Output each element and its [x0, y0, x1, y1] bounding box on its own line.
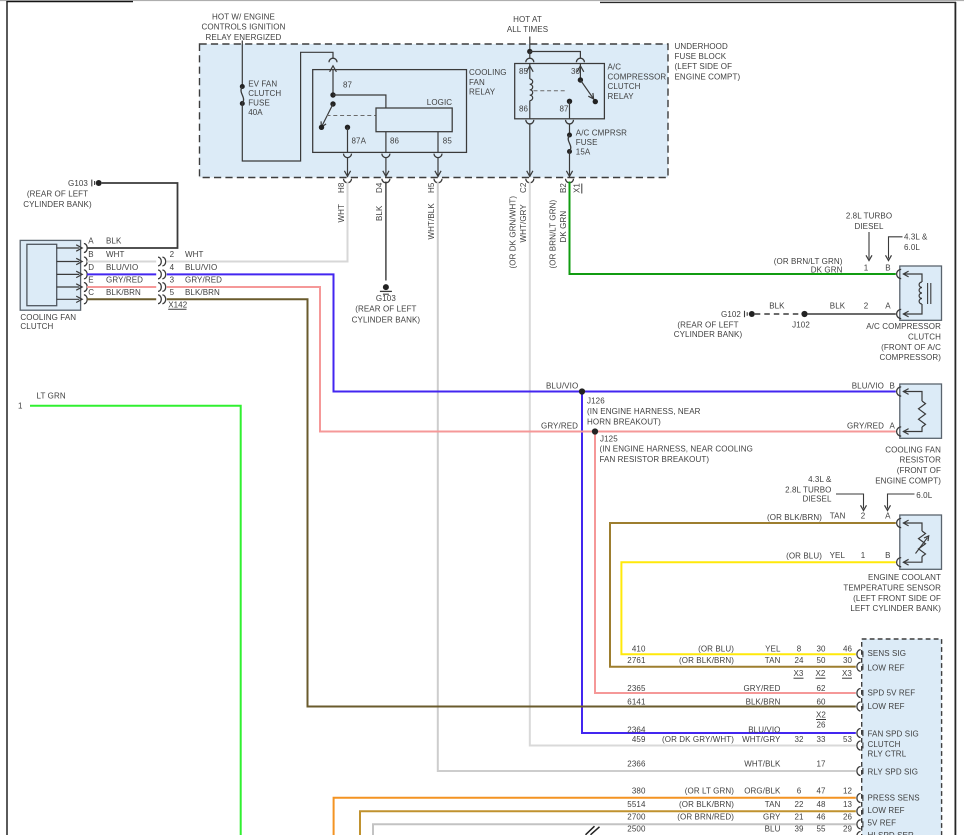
svg-text:A: A: [890, 421, 896, 430]
svg-text:B: B: [890, 381, 895, 390]
svg-text:CONTROLS IGNITION: CONTROLS IGNITION: [202, 23, 286, 32]
svg-text:CLUTCH: CLUTCH: [868, 740, 901, 749]
svg-text:(REAR OF LEFT: (REAR OF LEFT: [677, 321, 738, 330]
svg-text:A: A: [88, 237, 94, 246]
svg-text:DK GRN: DK GRN: [559, 211, 568, 243]
svg-text:2: 2: [170, 250, 175, 259]
svg-text:G102: G102: [721, 310, 741, 319]
row 459 WHT/GRY labels: [632, 735, 853, 744]
svg-text:D: D: [88, 263, 94, 272]
svg-text:(OR BLU): (OR BLU): [698, 645, 734, 654]
svg-text:WHT: WHT: [185, 250, 204, 259]
svg-text:A/C: A/C: [608, 63, 622, 72]
svg-text:410: 410: [632, 645, 646, 654]
svg-text:BLK: BLK: [106, 237, 122, 246]
svg-text:EV FAN: EV FAN: [248, 80, 277, 89]
row 2500 BLU labels: [627, 825, 852, 834]
svg-text:RESISTOR: RESISTOR: [899, 456, 941, 465]
svg-text:85: 85: [519, 67, 529, 76]
row 5514 TAN labels: [627, 800, 852, 809]
wire ORG/BLK circuit 380: [334, 798, 856, 835]
svg-text:BLU/VIO: BLU/VIO: [106, 263, 138, 272]
svg-text:GRY/RED: GRY/RED: [541, 421, 578, 430]
svg-text:26: 26: [843, 812, 853, 821]
svg-text:YEL: YEL: [830, 551, 846, 560]
ground G103 center: [352, 284, 421, 324]
svg-text:BLU/VIO: BLU/VIO: [852, 381, 884, 390]
svg-text:BLK: BLK: [375, 205, 384, 221]
svg-text:1: 1: [861, 551, 866, 560]
svg-text:X3: X3: [794, 669, 804, 678]
svg-text:(REAR OF LEFT: (REAR OF LEFT: [355, 305, 416, 314]
svg-text:GRY/RED: GRY/RED: [106, 276, 143, 285]
row 2365 GRY/RED labels: [627, 684, 826, 693]
svg-text:WHT/BLK: WHT/BLK: [744, 760, 781, 769]
ECM pin connectors: [857, 650, 863, 829]
svg-text:LT GRN: LT GRN: [37, 391, 66, 400]
wire feed from ignition relay: [241, 41, 243, 87]
row 2761 TAN labels: [627, 656, 852, 665]
a/c compressor clutch relay K2 box: [515, 64, 605, 119]
svg-text:(OR BLK/BRN): (OR BLK/BRN): [767, 513, 822, 522]
svg-text:BLK/BRN: BLK/BRN: [185, 288, 220, 297]
svg-text:(OR BRN/RED): (OR BRN/RED): [677, 812, 734, 821]
svg-text:(LEFT FRONT SIDE OF: (LEFT FRONT SIDE OF: [853, 594, 941, 603]
svg-text:3: 3: [170, 276, 175, 285]
labels 85 30 86 87: [519, 67, 581, 114]
svg-text:RLY CTRL: RLY CTRL: [868, 750, 907, 759]
svg-text:WHT: WHT: [337, 204, 346, 223]
svg-text:H5: H5: [427, 182, 436, 193]
svg-text:30: 30: [571, 67, 581, 76]
label A/C CMPRSR FUSE 15A: [576, 129, 627, 157]
junction J126: [579, 388, 701, 426]
row 2700 GRY labels: [627, 812, 852, 821]
svg-text:COOLING FAN: COOLING FAN: [885, 445, 941, 454]
wire BLK/BRN circuit (clutch C to ECM LOW REF): [87, 299, 856, 706]
svg-text:CLUTCH: CLUTCH: [908, 333, 941, 342]
svg-text:RELAY: RELAY: [469, 88, 496, 97]
a/c compressor clutch box with coil: [897, 266, 942, 320]
pin label C2 wire WHT/GRY: [509, 182, 529, 268]
svg-text:(REAR OF LEFT: (REAR OF LEFT: [27, 190, 88, 199]
svg-text:G103: G103: [376, 294, 396, 303]
svg-text:ENGINE COMPT): ENGINE COMPT): [675, 72, 741, 81]
svg-text:(IN ENGINE HARNESS, NEAR: (IN ENGINE HARNESS, NEAR: [587, 407, 701, 416]
svg-text:8: 8: [797, 645, 802, 654]
svg-text:C2: C2: [519, 182, 528, 193]
junction J125: [592, 428, 753, 463]
wire BLK clutch pin A to G103: [87, 183, 178, 248]
label A/C COMPRESSOR CLUTCH RELAY: [608, 63, 667, 101]
svg-text:30: 30: [843, 656, 853, 665]
svg-text:87: 87: [560, 104, 570, 113]
svg-text:COOLING: COOLING: [469, 68, 507, 77]
svg-text:C: C: [88, 288, 94, 297]
engine coolant temperature sensor box with thermistor: [897, 515, 942, 569]
svg-text:85: 85: [443, 137, 453, 146]
svg-text:4.3L &: 4.3L &: [904, 233, 928, 242]
wire 85 internal (logic out): [437, 132, 439, 153]
svg-text:COMPRESSOR): COMPRESSOR): [879, 353, 941, 362]
svg-text:BLK/BRN: BLK/BRN: [746, 698, 781, 707]
labels 2.8L TURBO DIESEL with arrow to pin 1: [846, 212, 892, 261]
ECM pin connector HI SPD SER row: [857, 832, 861, 835]
svg-text:(LEFT SIDE OF: (LEFT SIDE OF: [675, 62, 733, 71]
svg-text:2.8L TURBO: 2.8L TURBO: [846, 212, 892, 221]
svg-text:X2: X2: [816, 711, 826, 720]
label COOLING FAN RELAY: [469, 68, 507, 97]
svg-text:DK GRN: DK GRN: [811, 265, 843, 274]
svg-text:(IN ENGINE HARNESS, NEAR COOLI: (IN ENGINE HARNESS, NEAR COOLING: [600, 445, 753, 454]
svg-text:33: 33: [816, 735, 826, 744]
svg-text:TAN: TAN: [765, 800, 781, 809]
svg-text:46: 46: [816, 812, 826, 821]
label HOT W/ ENGINE CONTROLS IGNITION RELAY ENERGIZED: [202, 13, 286, 42]
twisted pair mark at bottom edge: [586, 826, 600, 835]
svg-text:ENGINE COOLANT: ENGINE COOLANT: [868, 573, 941, 582]
svg-text:46: 46: [843, 645, 853, 654]
svg-text:GRY/RED: GRY/RED: [847, 421, 884, 430]
svg-text:RELAY ENERGIZED: RELAY ENERGIZED: [206, 33, 282, 42]
svg-text:FUSE: FUSE: [576, 138, 598, 147]
svg-text:B: B: [885, 264, 890, 273]
svg-text:6.0L: 6.0L: [916, 491, 932, 500]
wire LT GRN: [18, 391, 241, 835]
svg-text:GRY/RED: GRY/RED: [743, 684, 780, 693]
labels 87A 86 85: [352, 137, 453, 146]
svg-text:X1: X1: [573, 183, 582, 193]
svg-text:2365: 2365: [627, 684, 646, 693]
relay pin 85 connector and coil: [526, 58, 534, 79]
svg-text:B2: B2: [559, 183, 568, 193]
svg-text:RLY SPD SIG: RLY SPD SIG: [868, 767, 919, 776]
svg-text:48: 48: [816, 800, 826, 809]
svg-text:CLUTCH: CLUTCH: [608, 82, 641, 91]
svg-text:6141: 6141: [627, 698, 646, 707]
ground G103 top-left: [23, 179, 101, 209]
svg-text:FAN SPD SIG: FAN SPD SIG: [868, 730, 919, 739]
svg-text:60: 60: [816, 698, 826, 707]
svg-text:53: 53: [843, 735, 853, 744]
svg-text:LOW REF: LOW REF: [868, 702, 905, 711]
svg-text:TEMPERATURE SENSOR: TEMPERATURE SENSOR: [843, 584, 941, 593]
svg-text:(FRONT OF A/C: (FRONT OF A/C: [881, 343, 941, 352]
labels (OR BRN/LT GRN) DK GRN and pins 1 B: [774, 257, 891, 274]
svg-text:COMPRESSOR: COMPRESSOR: [608, 72, 667, 81]
svg-text:X3: X3: [842, 669, 852, 678]
svg-text:ALL TIMES: ALL TIMES: [507, 25, 548, 34]
svg-text:X142: X142: [168, 300, 188, 309]
svg-text:(FRONT OF: (FRONT OF: [897, 466, 941, 475]
svg-text:1: 1: [864, 264, 869, 273]
row 380 ORG/BLK labels: [632, 787, 853, 796]
svg-text:ORG/BLK: ORG/BLK: [744, 787, 781, 796]
svg-text:86: 86: [519, 104, 529, 113]
svg-text:6: 6: [797, 787, 802, 796]
svg-text:(OR BRN/LT GRN): (OR BRN/LT GRN): [549, 200, 558, 269]
svg-text:HOT W/ ENGINE: HOT W/ ENGINE: [212, 13, 275, 22]
label 87: [343, 81, 353, 90]
labels BLK BLK 2 A for G102 wire: [769, 302, 891, 311]
wire 87A internal: [345, 125, 350, 153]
svg-text:WHT/GRY: WHT/GRY: [519, 204, 528, 243]
pin label H5 wire WHT/BLK: [427, 182, 436, 239]
svg-text:GRY: GRY: [763, 812, 781, 821]
svg-text:2700: 2700: [627, 812, 646, 821]
svg-text:47: 47: [816, 787, 826, 796]
wire TAN circuit 5514: [360, 811, 856, 835]
svg-text:J125: J125: [600, 434, 618, 443]
wire WHT/GRY circuit (fuse block C2 to ECM CLUTCH RLY CTRL): [530, 182, 856, 746]
svg-text:22: 22: [794, 800, 804, 809]
svg-text:D4: D4: [375, 182, 384, 193]
wire DK GRN circuit (fuse block B2/X1 to A/C compressor clutch B): [570, 182, 896, 275]
wire TAN circuit (ECT sensor A to ECM LOW REF): [610, 523, 896, 667]
svg-text:(OR BLK/BRN): (OR BLK/BRN): [679, 656, 734, 665]
svg-text:(OR BLK/BRN): (OR BLK/BRN): [679, 800, 734, 809]
wire HOT AT ALL TIMES feed: [527, 37, 580, 59]
svg-text:459: 459: [632, 735, 646, 744]
wire WHT/BLK circuit (fuse block H5 to ECM RLY SPD SIG): [438, 182, 856, 772]
svg-text:5V REF: 5V REF: [868, 819, 897, 828]
svg-text:B: B: [88, 250, 93, 259]
svg-text:CLUTCH: CLUTCH: [20, 322, 53, 331]
labels BLU/VIO B at resistor: [541, 381, 896, 430]
row 410 YEL labels: [632, 645, 853, 654]
wire BLK circuit (fuse block D4 to ground G103): [385, 182, 387, 281]
relay switch blade (87 to 87A): [319, 101, 336, 130]
wire 86 internal (logic out): [385, 132, 387, 153]
wire WHT circuit (clutch B to fuse block H8): [87, 182, 348, 262]
label 6.0L with elbow arrow to pin A: [885, 491, 933, 511]
svg-text:30: 30: [816, 645, 826, 654]
label A/C COMPRESSOR CLUTCH (FRONT OF A/C COMPRESSOR): [866, 322, 941, 362]
svg-text:RELAY: RELAY: [608, 92, 635, 101]
svg-text:LOW REF: LOW REF: [868, 663, 905, 672]
svg-text:2: 2: [861, 512, 866, 521]
svg-text:COOLING FAN: COOLING FAN: [20, 313, 76, 322]
svg-text:26: 26: [816, 720, 826, 729]
svg-text:(OR LT GRN): (OR LT GRN): [685, 787, 734, 796]
relay actuation dashed line: [534, 90, 567, 92]
svg-text:WHT: WHT: [106, 250, 125, 259]
ground G102 with dashed BLK wire and junction J102: [674, 310, 896, 339]
cooling fan relay pin 87 connector: [329, 58, 337, 95]
svg-text:32: 32: [794, 735, 804, 744]
node: relay 87 feed to logic: [330, 92, 386, 108]
connector labels X3 X2 X3: [794, 669, 853, 678]
svg-text:GRY/RED: GRY/RED: [185, 276, 222, 285]
row 2364 BLU/VIO labels: [627, 726, 780, 735]
svg-text:39: 39: [794, 825, 804, 834]
svg-text:4: 4: [170, 263, 175, 272]
svg-text:BLK: BLK: [769, 302, 785, 311]
svg-text:B: B: [885, 551, 890, 560]
svg-text:A/C CMPRSR: A/C CMPRSR: [576, 129, 627, 138]
svg-text:6.0L: 6.0L: [904, 243, 920, 252]
label COOLING FAN CLUTCH: [20, 313, 76, 331]
wire BLU/VIO circuit (clutch D via J126 to fan resistor B and ECM FAN SPD SIG): [87, 274, 896, 733]
wire YEL circuit (ECT sensor B to ECM SENS SIG): [621, 562, 895, 654]
connector label X2 pin 26: [816, 711, 826, 730]
connector X142 right-side labels: [170, 250, 223, 297]
svg-text:50: 50: [816, 656, 826, 665]
svg-text:2: 2: [864, 302, 869, 311]
svg-text:(OR DK GRY/WHT): (OR DK GRY/WHT): [662, 735, 734, 744]
svg-text:YEL: YEL: [765, 645, 781, 654]
svg-text:2500: 2500: [627, 825, 646, 834]
relay pin 87 internal wire: [567, 99, 572, 119]
fuse EV FAN CLUTCH FUSE 40A: [240, 80, 282, 118]
svg-text:17: 17: [816, 760, 826, 769]
svg-text:CYLINDER BANK): CYLINDER BANK): [23, 200, 92, 209]
cooling fan clutch box: [20, 240, 80, 310]
wire color labels BLK WHT BLU/VIO GRY/RED BLK/BRN: [106, 237, 143, 297]
svg-text:87A: 87A: [352, 137, 367, 146]
svg-text:PRESS SENS: PRESS SENS: [868, 794, 920, 803]
label ENGINE COOLANT TEMPERATURE SENSOR (LEFT FRONT SIDE OF LEFT CYLINDER BANK): [843, 573, 941, 613]
svg-text:2364: 2364: [627, 726, 646, 735]
underhood fuse block (dashed box): [200, 44, 669, 178]
svg-text:13: 13: [843, 800, 853, 809]
svg-text:LOGIC: LOGIC: [427, 98, 453, 107]
svg-text:(OR BLU): (OR BLU): [786, 552, 822, 561]
svg-text:LEFT CYLINDER BANK): LEFT CYLINDER BANK): [850, 604, 941, 613]
svg-text:X2: X2: [816, 669, 826, 678]
cooling fan clutch internal pins: [57, 244, 88, 304]
svg-text:29: 29: [843, 825, 853, 834]
svg-text:FUSE BLOCK: FUSE BLOCK: [675, 52, 727, 61]
svg-text:FUSE: FUSE: [248, 99, 270, 108]
cooling fan resistor box: [897, 384, 942, 438]
wire fuse to cooling fan relay pin 87 feed: [242, 52, 333, 161]
svg-text:4.3L &: 4.3L &: [808, 475, 832, 484]
svg-text:BLU/VIO: BLU/VIO: [185, 263, 217, 272]
relay actuation dashed line: [327, 115, 376, 117]
svg-text:A/C COMPRESSOR: A/C COMPRESSOR: [866, 322, 941, 331]
svg-text:BLU/VIO: BLU/VIO: [546, 381, 578, 390]
svg-text:CYLINDER BANK): CYLINDER BANK): [352, 315, 421, 324]
svg-text:40A: 40A: [248, 108, 263, 117]
svg-text:CYLINDER BANK): CYLINDER BANK): [674, 330, 743, 339]
pin label D4 wire BLK: [375, 182, 384, 221]
cooling fan relay K1 box: [313, 70, 467, 153]
svg-text:J102: J102: [792, 321, 810, 330]
svg-text:1: 1: [18, 402, 23, 411]
labels 4.3L & 2.8L TURBO DIESEL with elbow arrow to pin 2: [785, 475, 866, 511]
svg-text:5: 5: [170, 288, 175, 297]
svg-text:12: 12: [843, 787, 853, 796]
ECM connector dashed box: [862, 639, 942, 835]
svg-text:BLU/VIO: BLU/VIO: [748, 726, 780, 735]
svg-text:LOW REF: LOW REF: [868, 806, 905, 815]
relay 87 output through A/C CMPRSR FUSE 15A to pin B2/X1: [566, 120, 574, 183]
svg-text:WHT/GRY: WHT/GRY: [742, 735, 781, 744]
labels (OR BLK/BRN) TAN 2 A: [767, 512, 891, 523]
svg-text:CLUTCH: CLUTCH: [248, 89, 281, 98]
row 2366 WHT/BLK labels: [627, 760, 826, 769]
labels 4.3L & 6.0L with elbow arrow to pin B: [886, 233, 928, 261]
svg-text:SENS SIG: SENS SIG: [868, 649, 907, 658]
svg-text:DIESEL: DIESEL: [854, 222, 884, 231]
svg-text:HORN BREAKOUT): HORN BREAKOUT): [587, 417, 661, 426]
svg-text:FAN: FAN: [469, 78, 485, 87]
ECM signal labels: [868, 649, 920, 835]
pin letter labels A B D E C: [88, 237, 94, 297]
svg-text:(OR DK GRN/WHT): (OR DK GRN/WHT): [509, 196, 518, 269]
wire GRY circuit 2700: [373, 824, 856, 835]
svg-text:62: 62: [816, 684, 826, 693]
svg-text:21: 21: [794, 812, 804, 821]
svg-text:HOT AT: HOT AT: [513, 15, 542, 24]
svg-text:380: 380: [632, 787, 646, 796]
svg-text:UNDERHOOD: UNDERHOOD: [675, 42, 728, 51]
wire GRY/RED circuit (clutch E via J125 to fan resistor A and ECM SPD 5V REF): [87, 287, 896, 693]
logic module box: [376, 98, 452, 132]
pin label B2 X1 wire DK GRN: [549, 183, 582, 269]
row 6141 BLK/BRN labels: [627, 698, 826, 707]
svg-text:BLK: BLK: [830, 302, 846, 311]
relay pin 30 connector and switch blade: [576, 58, 598, 104]
svg-text:2366: 2366: [627, 760, 646, 769]
svg-text:J126: J126: [587, 396, 605, 405]
svg-text:86: 86: [390, 137, 400, 146]
svg-text:BLU: BLU: [765, 825, 781, 834]
svg-text:SPD 5V REF: SPD 5V REF: [868, 689, 916, 698]
svg-text:2.8L TURBO: 2.8L TURBO: [785, 485, 831, 494]
svg-text:ENGINE COMPT): ENGINE COMPT): [875, 476, 941, 485]
label UNDERHOOD FUSE BLOCK: [675, 42, 741, 82]
svg-text:WHT/BLK: WHT/BLK: [427, 203, 436, 240]
label HOT AT ALL TIMES: [507, 15, 548, 34]
svg-text:BLK/BRN: BLK/BRN: [106, 288, 141, 297]
svg-text:G103: G103: [68, 179, 88, 188]
svg-text:TAN: TAN: [830, 512, 846, 521]
svg-text:TAN: TAN: [765, 656, 781, 665]
svg-text:24: 24: [794, 656, 804, 665]
label COOLING FAN RESISTOR (FRONT OF ENGINE COMPT): [875, 445, 941, 485]
svg-text:87: 87: [343, 81, 353, 90]
svg-text:A: A: [885, 512, 891, 521]
labels (OR BLU) YEL 1 B: [786, 551, 890, 561]
relay outputs to fuse block pins H8 D4 H5: [344, 154, 352, 183]
svg-text:E: E: [88, 276, 93, 285]
svg-text:5514: 5514: [627, 800, 646, 809]
svg-text:FAN RESISTOR BREAKOUT): FAN RESISTOR BREAKOUT): [600, 455, 710, 464]
svg-text:H8: H8: [337, 182, 346, 193]
connector X142 inline arcs: [158, 257, 188, 309]
relay 86 output to pin C2: [526, 120, 534, 183]
pin label H8 wire WHT: [337, 182, 346, 222]
svg-text:DIESEL: DIESEL: [802, 495, 832, 504]
svg-text:2761: 2761: [627, 656, 646, 665]
svg-text:55: 55: [816, 825, 826, 834]
svg-text:15A: 15A: [576, 148, 591, 157]
svg-text:A: A: [885, 302, 891, 311]
svg-text:HI SPD SER: HI SPD SER: [868, 831, 914, 835]
